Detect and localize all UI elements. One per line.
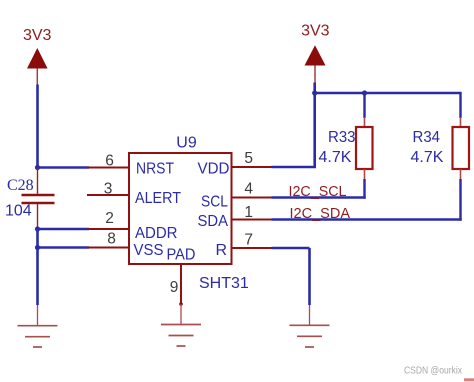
pin 2 ADDR stub bbox=[87, 228, 129, 230]
svg-text:104: 104 bbox=[5, 203, 32, 220]
ground middle symbol bbox=[161, 325, 201, 347]
ground middle stub bbox=[180, 304, 182, 324]
resistor R34 bottom lead wire bbox=[459, 179, 461, 221]
corner red mark bbox=[464, 378, 474, 381]
node junction at 3V3/NRST bbox=[35, 165, 40, 170]
svg-text:I2C_SDA: I2C_SDA bbox=[290, 205, 351, 222]
svg-text:R34: R34 bbox=[413, 129, 441, 146]
ground left stub bbox=[37, 305, 39, 325]
ground left symbol bbox=[18, 326, 58, 347]
svg-text:VSS: VSS bbox=[134, 242, 164, 259]
svg-text:R: R bbox=[215, 242, 227, 259]
power symbol 3V3 left triangle bbox=[27, 48, 48, 69]
resistor R33 top pin bbox=[364, 117, 366, 127]
pin 3 ALERT stub bbox=[87, 194, 129, 196]
capacitor C28 top plate bbox=[22, 194, 55, 197]
wire 3V3 right vertical top bbox=[313, 83, 316, 168]
resistor R33 bottom pin bbox=[364, 169, 366, 180]
pin 1 SDA stub bbox=[232, 219, 272, 221]
svg-text:PAD: PAD bbox=[167, 247, 196, 264]
pin 5 VDD stub bbox=[232, 166, 272, 168]
svg-text:R33: R33 bbox=[328, 129, 356, 146]
node junction rail/3V3 bbox=[312, 90, 317, 95]
svg-text:CSDN @ourkix: CSDN @ourkix bbox=[404, 366, 462, 377]
resistor R34 top pin bbox=[460, 117, 462, 127]
wire 3V3 rail horizontal bbox=[315, 92, 461, 94]
wire I2C_SCL net bbox=[272, 196, 366, 198]
svg-text:NRST: NRST bbox=[136, 161, 174, 178]
resistor R34 body bbox=[453, 127, 470, 169]
svg-text:VDD: VDD bbox=[198, 161, 230, 178]
node junction at VSS bbox=[35, 245, 40, 250]
svg-text:SHT31: SHT31 bbox=[199, 275, 249, 292]
pin 9 hotspot dot bbox=[179, 302, 183, 306]
capacitor C28 bottom plate bbox=[22, 202, 55, 205]
resistor R34 top lead wire bbox=[459, 92, 461, 118]
wire I2C_SDA net bbox=[272, 218, 462, 220]
svg-text:7: 7 bbox=[244, 231, 253, 248]
ground right stub bbox=[309, 305, 311, 325]
op IC U9 body bbox=[129, 153, 232, 264]
pin 4 SCL stub bbox=[232, 197, 272, 199]
pin 6 NRST stub bbox=[87, 167, 129, 169]
svg-text:3V3: 3V3 bbox=[23, 27, 52, 44]
svg-text:4.7K: 4.7K bbox=[411, 149, 444, 166]
svg-text:ADDR: ADDR bbox=[135, 225, 178, 242]
power symbol 3V3 left stub bbox=[36, 69, 38, 85]
svg-text:4.7K: 4.7K bbox=[319, 149, 352, 166]
capacitor C28 bottom lead bbox=[37, 204, 39, 229]
svg-text:SCL: SCL bbox=[201, 194, 228, 211]
wire R pin net horizontal bbox=[272, 247, 310, 249]
pin 9 PAD stub bbox=[180, 264, 182, 304]
wire GND vertical left bbox=[36, 229, 39, 305]
ground right symbol bbox=[290, 325, 330, 347]
wire R pin net vertical bbox=[308, 248, 311, 305]
resistor R34 bottom pin bbox=[460, 169, 462, 180]
svg-text:C28: C28 bbox=[7, 177, 34, 194]
wire NRST net horizontal bbox=[38, 166, 90, 168]
svg-text:6: 6 bbox=[105, 153, 114, 170]
svg-text:2: 2 bbox=[105, 210, 114, 227]
resistor R33 top lead wire bbox=[363, 93, 365, 118]
node junction at cap/ADDR bbox=[35, 226, 40, 231]
wire 3V3 vertical left bbox=[36, 85, 39, 168]
svg-text:U9: U9 bbox=[176, 135, 197, 152]
node junction rail/R33 bbox=[362, 90, 367, 95]
pin 8 VSS stub bbox=[87, 247, 129, 249]
svg-text:9: 9 bbox=[170, 279, 179, 296]
svg-text:4: 4 bbox=[244, 181, 253, 198]
wire VDD net horizontal bbox=[272, 166, 317, 168]
power symbol 3V3 right triangle bbox=[305, 45, 326, 65]
svg-text:I2C_SCL: I2C_SCL bbox=[289, 183, 347, 200]
pin 7 R stub bbox=[232, 247, 272, 249]
capacitor C28 top lead bbox=[37, 168, 39, 194]
wire VSS net horizontal bbox=[38, 246, 90, 248]
svg-text:ALERT: ALERT bbox=[135, 190, 181, 207]
resistor R33 body bbox=[356, 127, 373, 169]
svg-text:8: 8 bbox=[107, 231, 116, 248]
svg-text:5: 5 bbox=[244, 150, 253, 167]
svg-text:1: 1 bbox=[244, 204, 253, 221]
svg-text:3: 3 bbox=[104, 181, 113, 198]
resistor R33 bottom lead wire bbox=[363, 179, 365, 199]
power symbol 3V3 right stub bbox=[314, 66, 316, 83]
svg-text:3V3: 3V3 bbox=[301, 23, 330, 40]
svg-text:SDA: SDA bbox=[198, 213, 229, 230]
wire ADDR net horizontal bbox=[38, 228, 90, 230]
